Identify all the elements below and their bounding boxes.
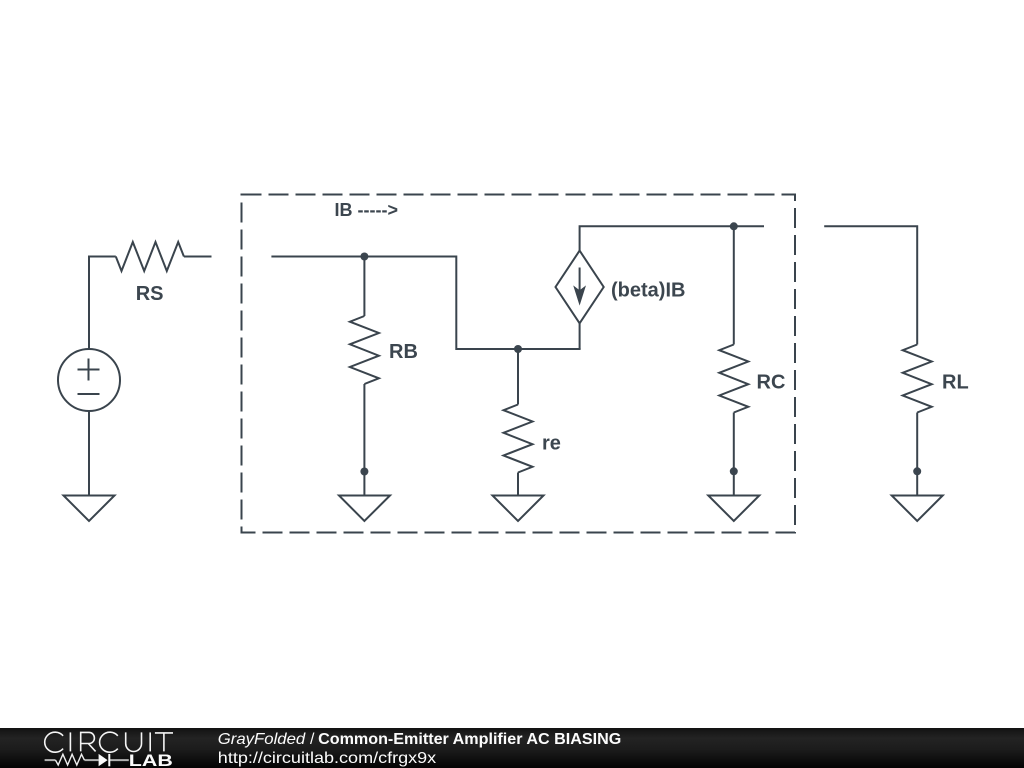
svg-text:RC: RC <box>757 372 786 394</box>
dashed box (transistor model boundary) <box>242 195 796 533</box>
resistor RB <box>363 257 365 317</box>
wire V1 top to RS <box>89 257 116 350</box>
ground under RC <box>708 496 759 522</box>
voltage source V1 <box>58 349 120 411</box>
svg-text:RB: RB <box>389 341 418 363</box>
V1 minus sign <box>78 393 100 395</box>
wire RL top <box>824 226 917 344</box>
svg-text:http://circuitlab.com/cfrgx9x: http://circuitlab.com/cfrgx9x <box>218 750 436 767</box>
wire current source bottom lead <box>579 323 581 349</box>
node dot RL bottom <box>913 467 921 475</box>
ground under RB <box>339 496 390 522</box>
svg-text:re: re <box>542 433 561 455</box>
svg-text:RL: RL <box>942 372 969 394</box>
svg-text:GrayFolded: GrayFolded <box>218 731 307 748</box>
wire current source top to collector node <box>580 226 764 250</box>
svg-text:(beta)IB: (beta)IB <box>611 280 685 302</box>
logo CIRCUIT letters <box>45 732 173 752</box>
node dot RB bottom <box>360 468 368 476</box>
V1 plus sign <box>78 359 100 381</box>
ground under RL <box>892 496 943 522</box>
ground under V1 <box>64 496 115 522</box>
wire RS right lead <box>184 256 212 258</box>
resistor re <box>517 349 519 405</box>
wire V1 bottom <box>88 411 90 495</box>
resistor RS <box>116 242 184 271</box>
svg-text:LAB: LAB <box>129 751 173 768</box>
ground under re <box>493 496 544 522</box>
bottom banner <box>0 728 1024 768</box>
svg-text:RS: RS <box>136 283 164 305</box>
current source arrow <box>579 268 581 294</box>
wire base node horizontal <box>271 257 580 350</box>
svg-text:IB ----->: IB -----> <box>335 200 398 220</box>
dependent current source (beta)IB diamond <box>556 251 604 324</box>
resistor RL <box>903 345 932 413</box>
svg-text:/: / <box>310 731 315 748</box>
node dot collector <box>730 222 738 230</box>
resistor RC <box>733 226 735 344</box>
node dot RC bottom <box>730 467 738 475</box>
svg-text:Common-Emitter Amplifier AC BI: Common-Emitter Amplifier AC BIASING <box>318 731 621 748</box>
node dot base left <box>360 253 368 261</box>
node dot emitter <box>514 345 522 353</box>
logo resistor-diode glyph <box>45 759 129 761</box>
